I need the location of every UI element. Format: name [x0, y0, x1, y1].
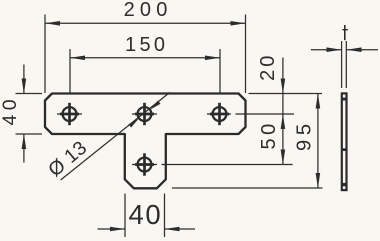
- svg-text:50: 50: [258, 120, 280, 149]
- svg-text:150: 150: [125, 34, 168, 56]
- svg-text:95: 95: [293, 119, 316, 151]
- hole H2 (middle): [132, 103, 157, 125]
- dimension 40 bottom: [98, 194, 196, 238]
- plate outline (front view, T-shape): [45, 94, 246, 189]
- svg-text:20: 20: [257, 53, 279, 81]
- dimension 200: [45, 15, 246, 94]
- hole H1 (left): [57, 103, 82, 125]
- dimension 95: [172, 94, 323, 189]
- svg-text:200: 200: [124, 0, 173, 21]
- thickness dimension (side view): [311, 41, 378, 88]
- side view plate: [342, 93, 347, 190]
- dimension 40 left: [16, 65, 43, 163]
- dimension 20 / 50 (shared line): [249, 58, 323, 165]
- hole H4 (stem) with centerline extended right: [132, 153, 293, 175]
- svg-text:40: 40: [129, 199, 163, 230]
- hole H3 (right) with centerline extended right: [207, 103, 294, 125]
- svg-text:40: 40: [0, 95, 21, 126]
- thickness value mark: [342, 25, 348, 40]
- slot marks: [342, 98, 346, 101]
- leader line Ø13: [61, 92, 170, 180]
- dimension 150: [70, 49, 220, 93]
